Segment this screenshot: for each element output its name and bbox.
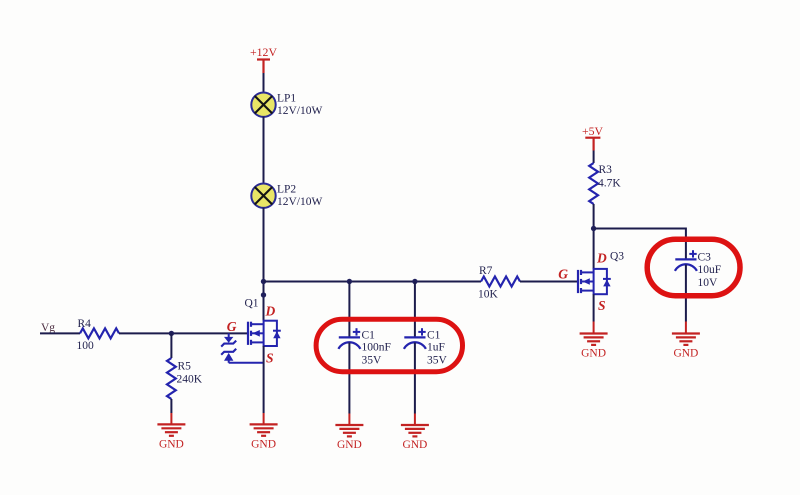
svg-text:Q1: Q1 [244,298,258,310]
svg-text:10uF: 10uF [698,264,722,276]
svg-text:S: S [598,298,606,313]
wire junction to R5 [170,333,172,358]
svg-text:Q3: Q3 [610,251,624,263]
resistor R3 [589,163,598,204]
lamp LP1 [251,93,275,117]
svg-text:Vg: Vg [41,322,55,334]
node junction dot (Q3 drain / C3) [591,226,596,231]
svg-text:+12V: +12V [250,45,277,59]
svg-text:LP1: LP1 [277,93,296,105]
wire Q3 source to GND [593,294,595,321]
ground GND (Q1 source) [250,424,278,435]
svg-text:12V/10W: 12V/10W [277,196,323,208]
wire C1 1uF to GND [414,343,416,414]
capacitor C3 [675,250,697,271]
svg-text:R4: R4 [78,318,92,330]
svg-text:240K: 240K [177,374,203,386]
resistor R7 [481,277,520,287]
svg-text:100nF: 100nF [362,342,391,354]
node junction dot (R5 tap) [169,331,174,336]
svg-text:GND: GND [251,439,276,451]
power +5V [582,124,604,151]
power +12V [250,45,277,73]
TVS zener pair (Q1 gate protection) [221,333,263,362]
svg-text:G: G [227,319,237,334]
svg-text:R3: R3 [599,164,613,176]
svg-text:GND: GND [337,439,362,451]
wire C3 to GND [685,265,687,322]
ground GND (C1 1uF) [401,425,429,436]
ground GND (R5) [157,424,185,435]
lamp LP2 [251,184,275,208]
ground GND (C3) [672,334,700,345]
svg-text:4.7K: 4.7K [598,178,621,190]
svg-text:R7: R7 [479,265,493,277]
wire bus to C1 100nF [348,282,350,338]
svg-text:LP2: LP2 [277,184,296,196]
svg-text:12V/10W: 12V/10W [277,105,323,117]
svg-text:GND: GND [159,439,184,451]
wire R3 to Q3 drain [593,204,595,269]
capacitor C1 1uF [404,328,426,349]
svg-text:C1: C1 [427,330,441,342]
wire +12V to LP1 [263,73,265,93]
svg-text:C3: C3 [698,252,712,264]
svg-text:R5: R5 [178,361,192,373]
resistor R5 [167,358,176,399]
svg-text:S: S [266,351,274,366]
svg-text:D: D [265,304,276,319]
wire LP1 to LP2 [263,117,265,184]
wire bus to C1 1uF [414,282,416,338]
highlight oval (C3) [647,239,740,296]
highlight oval (C1 pair) [316,319,462,372]
svg-text:GND: GND [673,348,698,360]
ground GND (C1 100nF) [335,425,363,436]
svg-text:GND: GND [402,439,427,451]
wire Vg to R4 [40,332,80,334]
ground GND (Q3 source) [580,334,608,345]
capacitor C1 100nF [338,328,360,349]
transistor Q1 [248,321,281,346]
svg-text:D: D [596,251,607,266]
svg-text:10V: 10V [698,277,719,289]
svg-text:35V: 35V [427,355,448,367]
svg-text:G: G [558,267,568,282]
wire drain bus to R7 [264,281,482,283]
wire Q1 source to GND [263,346,265,413]
svg-text:35V: 35V [362,355,383,367]
resistor R4 [80,328,119,338]
svg-text:10K: 10K [478,289,499,301]
svg-text:C1: C1 [362,330,376,342]
wire C1 100nF to GND [348,343,350,414]
svg-text:1uF: 1uF [427,342,445,354]
node junction dot (C1 100nF tap) [347,279,352,284]
svg-text:+5V: +5V [582,124,604,138]
node pin dot (Q1 drain) [261,292,266,297]
wire junction to C3 [594,229,686,260]
wire LP2 to Q1 drain [263,208,265,321]
wire +5V to R3 [593,151,595,164]
svg-text:GND: GND [581,348,606,360]
wire R4 to Q1 gate [119,332,248,334]
wire R7 to Q3 gate [520,281,578,283]
transistor Q3 [578,269,611,294]
wire R5 to GND [170,399,172,413]
svg-text:100: 100 [77,340,95,352]
node junction dot (C1 1uF tap) [412,279,417,284]
node junction dot (drain bus) [261,279,266,284]
